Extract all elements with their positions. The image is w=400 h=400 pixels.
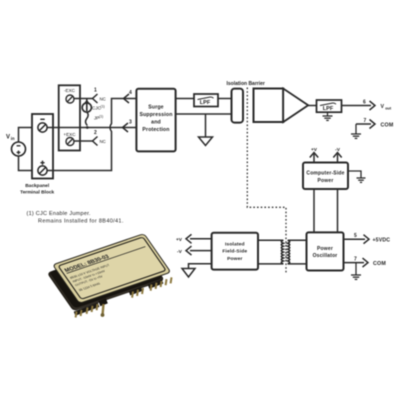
- ground triangle: [199, 137, 213, 146]
- wire to ground: [205, 114, 207, 137]
- svg-text:Isolation Barrier: Isolation Barrier: [227, 81, 265, 87]
- arrow pin 7 bottom: [363, 258, 369, 267]
- module 8B30 3D body: [47, 242, 165, 312]
- wire + input line up over hop to node 4: [47, 99, 137, 171]
- wire pin 1 NC stub: [74, 98, 93, 100]
- wire surge to LPF1: [176, 98, 194, 100]
- svg-text:-V: -V: [335, 147, 341, 153]
- isolation barrier bar: [232, 89, 244, 123]
- svg-text:V: V: [6, 135, 10, 141]
- screw -EXC: [66, 95, 74, 103]
- transformer T1 right winding: [288, 240, 290, 264]
- wire field power to transformer top: [258, 239, 283, 241]
- wire Vin to terminal block: [19, 128, 38, 171]
- svg-text:in: in: [11, 136, 15, 141]
- svg-text:COM: COM: [381, 123, 394, 129]
- svg-text:COM: COM: [373, 261, 386, 267]
- backpanel terminal block: [32, 114, 53, 179]
- wire field power to transformer bottom: [258, 263, 283, 265]
- svg-text:Suppression: Suppression: [139, 112, 172, 118]
- terminal screw -: [40, 118, 44, 120]
- svg-text:+EXC: +EXC: [63, 132, 76, 137]
- ground computer-side power: [348, 171, 366, 182]
- svg-text:7: 7: [354, 257, 357, 263]
- module top face: [53, 234, 171, 304]
- arrow pin 7 top: [370, 120, 376, 129]
- power oscillator block: [307, 232, 344, 270]
- svg-text:NC: NC: [100, 139, 106, 144]
- LPF block 1: [194, 94, 218, 107]
- wire pin 2 NC stub: [74, 140, 93, 142]
- wire surge lower output to isolation bar: [176, 113, 232, 115]
- wire amp to LPF2: [308, 105, 316, 107]
- module pins: [76, 277, 172, 317]
- voltage source Vin: [12, 142, 26, 156]
- wire field common: [189, 264, 212, 268]
- isolated field-side power block: [212, 233, 258, 270]
- field common triangle: [182, 269, 195, 278]
- svg-text:Power: Power: [227, 256, 242, 262]
- svg-text:3: 3: [129, 120, 132, 126]
- svg-text:Power: Power: [318, 178, 334, 184]
- svg-text:Remains Installed for 8B40/41.: Remains Installed for 8B40/41.: [38, 219, 124, 225]
- svg-text:LPF: LPF: [323, 106, 334, 112]
- svg-text:2: 2: [94, 130, 97, 136]
- arrow pin 4: [124, 94, 130, 103]
- svg-text:-V: -V: [177, 249, 183, 255]
- ground under LPF2: [323, 112, 333, 120]
- wire LPF1 to isolation bar: [218, 98, 232, 100]
- transformer T1 left winding: [281, 240, 283, 264]
- svg-text:1: 1: [94, 88, 97, 94]
- terminal screw +: [40, 161, 44, 165]
- screw +EXC: [66, 138, 74, 146]
- junction dot: [86, 126, 89, 129]
- svg-text:(1): (1): [101, 105, 105, 109]
- CJC sensor: [82, 99, 91, 113]
- svg-text:-EXC: -EXC: [64, 88, 76, 93]
- svg-text:Power: Power: [317, 246, 333, 252]
- arrow field -V: [186, 246, 192, 255]
- arrow pin 6: [370, 101, 376, 110]
- arrow field +V: [186, 234, 192, 243]
- wire transformer to oscillator bottom: [288, 263, 307, 265]
- computer-side power block: [303, 163, 348, 190]
- wire LPF2 to Vout: [342, 105, 372, 107]
- ground COM top: [351, 124, 361, 138]
- arrow pin 1: [93, 94, 98, 103]
- jumper JP1: [86, 112, 89, 126]
- svg-text:Computer-Side: Computer-Side: [306, 171, 344, 177]
- dashed isolation boundary: [247, 88, 286, 274]
- svg-text:Backpanel: Backpanel: [25, 183, 49, 189]
- svg-text:Surge: Surge: [148, 105, 163, 111]
- wire COM bottom: [344, 262, 365, 264]
- excitation terminal block: [59, 85, 80, 150]
- wire +5VDC: [344, 238, 366, 240]
- arrow -V computer side: [333, 153, 341, 163]
- module label: [58, 237, 166, 299]
- svg-text:(1) CJC Enable Jumper.: (1) CJC Enable Jumper.: [27, 211, 91, 217]
- svg-text:NC: NC: [100, 97, 106, 102]
- arrow +V computer side: [310, 153, 318, 163]
- arrow pin 3: [123, 123, 129, 132]
- wire transformer to oscillator top: [288, 239, 307, 241]
- ground COM bottom: [351, 263, 361, 280]
- svg-text:Isolated: Isolated: [225, 241, 245, 247]
- wire COM top: [356, 123, 371, 125]
- wire field -V: [190, 250, 212, 252]
- svg-text:7: 7: [364, 118, 367, 124]
- svg-text:Oscillator: Oscillator: [313, 253, 338, 259]
- svg-text:V: V: [381, 104, 385, 110]
- LPF block 2: [317, 100, 342, 112]
- op-amp A1: [254, 89, 284, 123]
- svg-text:and: and: [151, 120, 161, 126]
- arrow pin 5: [364, 235, 370, 244]
- svg-text:Terminal Block: Terminal Block: [20, 190, 54, 196]
- surge suppression block U-surge: [136, 89, 175, 152]
- svg-text:Field-Side: Field-Side: [222, 249, 247, 255]
- svg-text:+5VDC: +5VDC: [373, 238, 391, 244]
- svg-text:6: 6: [363, 100, 366, 106]
- wire - input line to surge (node 3): [47, 127, 137, 129]
- svg-text:5: 5: [354, 233, 357, 239]
- wire CSP to oscillator right: [337, 189, 339, 232]
- module pin housings: [74, 279, 164, 315]
- svg-text:out: out: [385, 107, 392, 111]
- module center pin: [98, 298, 107, 317]
- svg-text:+V: +V: [176, 237, 183, 243]
- wire field +V: [190, 238, 212, 240]
- svg-text:LPF: LPF: [200, 100, 211, 106]
- svg-text:4: 4: [129, 90, 132, 96]
- svg-text:+V: +V: [311, 147, 318, 153]
- svg-text:(1): (1): [99, 115, 103, 119]
- arrow pin 2: [93, 137, 98, 146]
- svg-text:Protection: Protection: [142, 127, 169, 133]
- wire CSP to oscillator left: [313, 189, 315, 232]
